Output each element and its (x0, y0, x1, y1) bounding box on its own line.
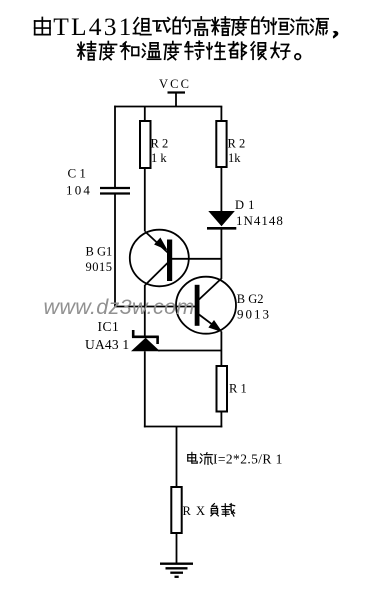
svg-text:UA43 1: UA43 1 (85, 337, 129, 352)
wire rail to C1 (114, 106, 116, 188)
title line 2 (78, 41, 301, 60)
svg-text:R 1: R 1 (229, 382, 247, 396)
resistor R1 (217, 366, 228, 412)
svg-text:TL431: TL431 (53, 12, 133, 41)
wire RX to ground (176, 533, 178, 564)
wire C1 to BG2 base node (114, 195, 116, 308)
current formula label (188, 452, 283, 467)
svg-text:VCC: VCC (159, 77, 191, 91)
wire BG2 base line (114, 306, 195, 308)
VCC terminal bar (168, 91, 186, 93)
wire rail to R2a (144, 107, 146, 122)
svg-text:1k: 1k (228, 151, 241, 165)
svg-text:C 1: C 1 (68, 166, 86, 181)
wire bottom rail (144, 426, 222, 428)
svg-text:I=2*2.5/R 1: I=2*2.5/R 1 (213, 452, 283, 467)
svg-text:9015: 9015 (86, 260, 113, 274)
title line 1 (35, 12, 339, 41)
wire rail to R2b (220, 107, 222, 122)
svg-text:R X: R X (183, 504, 207, 518)
wire IC1 anode to bottom rail (144, 351, 146, 427)
svg-text:1 k: 1 k (151, 151, 167, 165)
ground (160, 564, 193, 577)
transistor BG1 (9015) (130, 230, 189, 287)
resistor R2 (right) (216, 121, 226, 167)
RX label (183, 504, 235, 518)
resistor R2 (left) (140, 121, 151, 168)
wire VCC stub (175, 93, 177, 107)
wire R2b to D1 anode (220, 167, 222, 212)
wire top rail (114, 106, 222, 108)
wire output drop (176, 427, 178, 488)
transistor BG2 (9013) (176, 277, 236, 334)
wire D1 cathode to BG2 collector (220, 230, 222, 279)
svg-text:R 2: R 2 (228, 137, 246, 151)
wire IC1 ref to R1 top node (158, 350, 222, 352)
svg-text:IC1: IC1 (98, 319, 120, 334)
wire BG2 emitter to R1 (220, 332, 222, 366)
svg-text:B G2: B G2 (237, 292, 264, 306)
resistor RX load (171, 487, 181, 533)
wire R2a to BG1 collector (144, 168, 146, 232)
diode D1 (1N4148) (207, 211, 236, 228)
svg-text:D 1: D 1 (235, 198, 255, 212)
wire BG1 base to D1 cathode node (172, 258, 222, 260)
svg-text:www.dz3w.com: www.dz3w.com (44, 295, 195, 319)
zener reference IC1 UA431 (131, 330, 160, 351)
capacitor C1 (100, 188, 130, 194)
svg-text:B G1: B G1 (86, 245, 113, 259)
svg-text:9013: 9013 (237, 307, 271, 322)
wire R1 to bottom rail (220, 412, 222, 428)
svg-text:104: 104 (66, 183, 92, 198)
svg-text:R 2: R 2 (151, 137, 169, 151)
wire BG1 emitter to IC1 (144, 285, 146, 336)
svg-text:1N4148: 1N4148 (236, 213, 284, 228)
